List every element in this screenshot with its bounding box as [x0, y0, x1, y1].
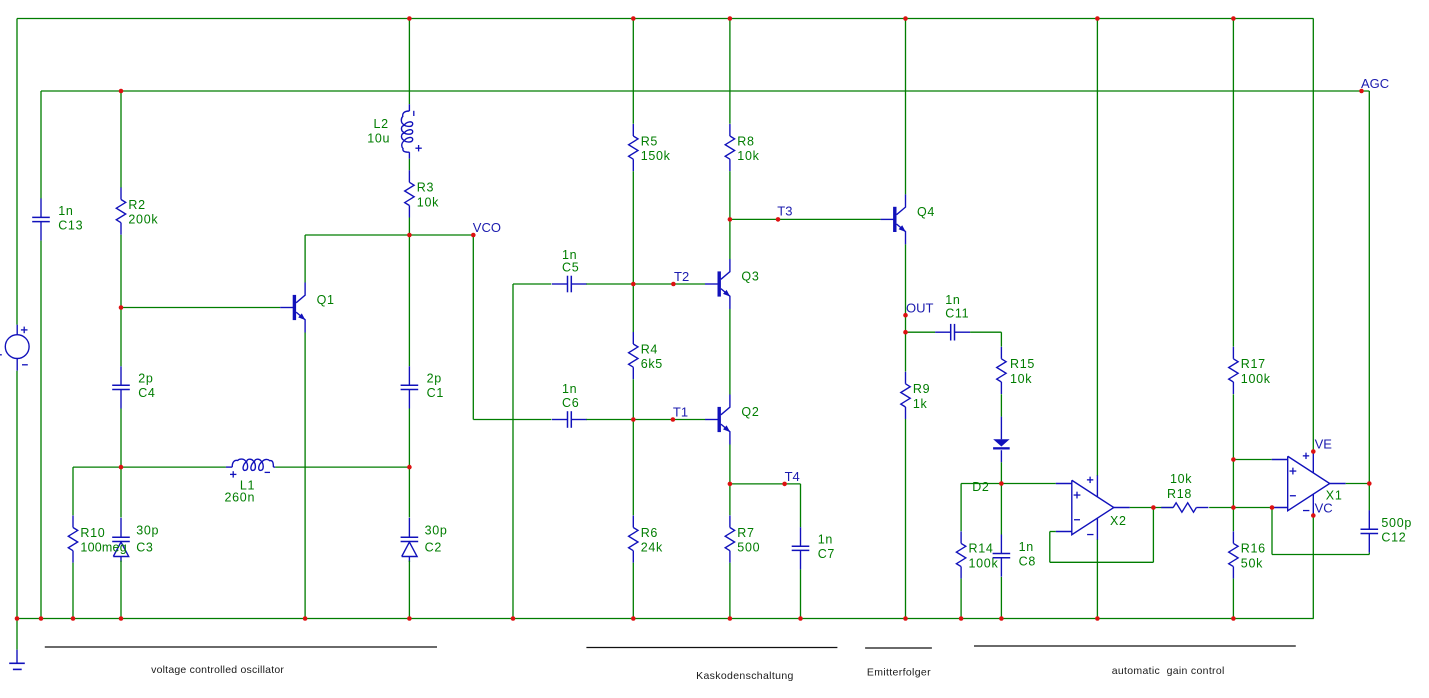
- svg-text:D2: D2: [972, 480, 989, 494]
- svg-text:VE: VE: [1315, 437, 1333, 452]
- svg-text:10k: 10k: [1170, 472, 1192, 486]
- svg-text:R8: R8: [737, 134, 754, 148]
- svg-text:R16: R16: [1241, 542, 1266, 556]
- svg-text:T3: T3: [777, 204, 792, 219]
- svg-text:X2: X2: [1110, 514, 1127, 528]
- svg-text:Emitterfolger: Emitterfolger: [867, 666, 931, 678]
- svg-text:1n: 1n: [58, 204, 73, 218]
- svg-text:C7: C7: [818, 547, 835, 561]
- svg-text:30p: 30p: [136, 524, 159, 538]
- svg-text:R15: R15: [1010, 357, 1035, 371]
- svg-text:R6: R6: [641, 526, 658, 540]
- svg-text:10k: 10k: [1010, 372, 1032, 386]
- svg-text:R14: R14: [969, 542, 994, 556]
- svg-text:C2: C2: [425, 540, 442, 554]
- svg-text:C1: C1: [427, 386, 444, 400]
- svg-text:500p: 500p: [1381, 516, 1412, 530]
- svg-text:C6: C6: [562, 396, 579, 410]
- svg-text:30p: 30p: [425, 524, 448, 538]
- svg-text:OUT: OUT: [906, 301, 934, 316]
- svg-text:10k: 10k: [417, 196, 439, 210]
- svg-text:1n: 1n: [945, 293, 960, 307]
- svg-text:6k5: 6k5: [641, 357, 663, 371]
- svg-text:Q2: Q2: [741, 405, 759, 419]
- svg-text:Q4: Q4: [917, 205, 935, 219]
- svg-text:automatic gain control: automatic gain control: [1112, 665, 1225, 677]
- svg-text:10u: 10u: [367, 131, 390, 145]
- svg-text:100k: 100k: [969, 557, 999, 571]
- svg-text:Q3: Q3: [741, 270, 759, 284]
- svg-text:R10: R10: [80, 526, 105, 540]
- svg-text:R2: R2: [128, 198, 145, 212]
- svg-text:C4: C4: [138, 386, 155, 400]
- svg-text:50k: 50k: [1241, 557, 1263, 571]
- svg-text:R4: R4: [641, 342, 658, 356]
- svg-text:1n: 1n: [562, 382, 577, 396]
- svg-text:Q1: Q1: [317, 293, 335, 307]
- svg-text:10k: 10k: [737, 149, 759, 163]
- svg-text:R18: R18: [1167, 487, 1192, 501]
- svg-text:R9: R9: [913, 382, 930, 396]
- svg-text:T2: T2: [674, 269, 689, 284]
- svg-text:C3: C3: [136, 540, 153, 554]
- svg-text:VC: VC: [1315, 501, 1333, 516]
- svg-text:VCO: VCO: [473, 220, 501, 235]
- svg-text:T1: T1: [673, 405, 688, 420]
- svg-text:200k: 200k: [128, 213, 158, 227]
- svg-text:R7: R7: [737, 526, 754, 540]
- svg-text:500: 500: [737, 541, 760, 555]
- svg-text:L2: L2: [373, 117, 388, 131]
- svg-text:1n: 1n: [1019, 540, 1034, 554]
- svg-text:R5: R5: [641, 134, 658, 148]
- svg-text:Kaskodenschaltung: Kaskodenschaltung: [696, 670, 794, 682]
- svg-text:C11: C11: [945, 307, 969, 321]
- svg-text:C13: C13: [58, 218, 83, 232]
- svg-text:100k: 100k: [1241, 372, 1271, 386]
- svg-text:R3: R3: [417, 181, 434, 195]
- svg-text:100meg: 100meg: [80, 541, 127, 555]
- svg-text:2p: 2p: [427, 372, 442, 386]
- svg-text:150k: 150k: [641, 149, 671, 163]
- svg-text:C12: C12: [1381, 530, 1406, 544]
- svg-text:24k: 24k: [641, 541, 663, 555]
- svg-text:C5: C5: [562, 261, 579, 275]
- svg-text:C8: C8: [1019, 554, 1036, 568]
- svg-text:2p: 2p: [138, 372, 153, 386]
- svg-text:1k: 1k: [913, 397, 928, 411]
- svg-text:1n: 1n: [818, 533, 833, 547]
- svg-text:260n: 260n: [225, 491, 256, 505]
- svg-text:R17: R17: [1241, 357, 1266, 371]
- svg-text:T4: T4: [785, 469, 800, 484]
- svg-text:voltage controlled oscillator: voltage controlled oscillator: [151, 664, 284, 676]
- svg-text:AGC: AGC: [1361, 76, 1389, 91]
